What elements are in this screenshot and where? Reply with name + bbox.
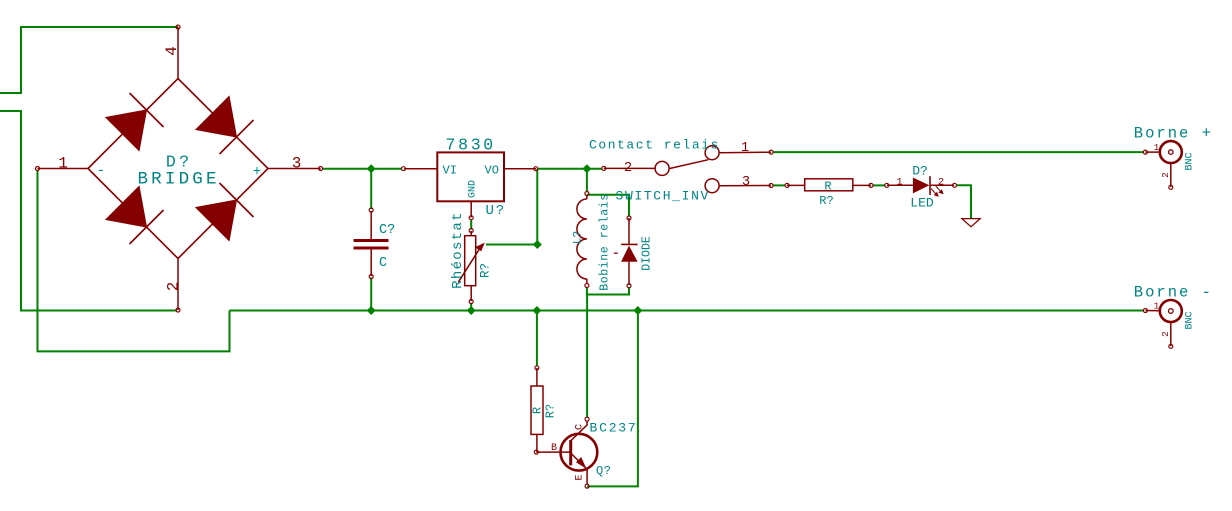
capacitor pin bottom — [370, 250, 372, 277]
wire resistor R to LED — [873, 184, 886, 186]
switch pin 3 — [719, 185, 771, 187]
LED cathode bar — [929, 176, 931, 195]
svg-text:R?: R? — [819, 194, 833, 208]
rheostat wiper arrow — [458, 247, 481, 283]
junction base-resistor/rail — [532, 306, 541, 315]
svg-text:C?: C? — [379, 223, 395, 238]
svg-text:-: - — [97, 163, 105, 179]
diode D?c bottom-left — [106, 186, 164, 244]
rheostat pin bottom — [470, 286, 472, 301]
wire switch pin1 to Borne + — [773, 151, 1145, 153]
FREEWHEEL DIODE — [614, 216, 654, 288]
junction wiper node — [533, 240, 542, 249]
coil pin top — [586, 195, 588, 199]
BNC outer circle — [1160, 300, 1182, 322]
pin VI — [404, 168, 437, 170]
switch pin 1 — [719, 151, 771, 154]
svg-text:GND: GND — [468, 180, 479, 198]
svg-text:B: B — [551, 443, 557, 454]
BRIDGE RECTIFIER D? — [36, 25, 323, 312]
U1 body — [437, 152, 504, 201]
diode pin top — [628, 218, 630, 244]
junction bridge/cap node — [367, 164, 376, 173]
BASE RESISTOR R? (vertical) — [531, 366, 558, 452]
wire capacitor bottom — [370, 278, 372, 311]
svg-text:R?: R? — [544, 404, 558, 418]
wire coil top to diode top — [587, 195, 629, 217]
wire DC minus from bridge pin 1 — [38, 170, 230, 351]
wire diode bottom — [587, 287, 629, 295]
wire emitter to rail — [587, 311, 638, 487]
svg-text:E: E — [575, 474, 586, 480]
resistor body — [531, 386, 543, 434]
svg-text:1: 1 — [741, 141, 749, 156]
resistor pin bottom — [536, 434, 538, 452]
wire rail to base resistor — [536, 311, 538, 367]
bridge diamond outline — [88, 79, 268, 259]
svg-text:Q?: Q? — [596, 464, 611, 478]
resistor body — [805, 179, 853, 191]
svg-text:Bobine relais: Bobine relais — [599, 193, 612, 291]
CAPACITOR C? — [354, 208, 396, 279]
svg-text:SWITCH_INV: SWITCH_INV — [616, 189, 711, 204]
svg-text:3: 3 — [742, 175, 750, 190]
capacitor pin top — [370, 211, 372, 239]
BNC inner circle — [1169, 309, 1174, 314]
diode triangle — [621, 246, 638, 262]
wire coil bottom to collector — [586, 287, 588, 418]
wire VO down to wiper — [536, 169, 538, 245]
BNC outer circle — [1160, 141, 1182, 163]
pin GND — [470, 201, 472, 217]
svg-text:VI: VI — [443, 164, 457, 178]
base pin — [536, 451, 570, 453]
rheostat pin top — [470, 231, 472, 236]
wire switch pin3 to resistor R — [773, 184, 786, 186]
junction VO/switch/coil node — [582, 164, 591, 173]
svg-text:R: R — [531, 407, 545, 414]
svg-text:C: C — [575, 424, 586, 430]
bridge pin 3 — [268, 168, 321, 170]
diode pin bottom — [628, 262, 630, 285]
svg-text:C: C — [379, 256, 387, 271]
svg-text:1: 1 — [896, 177, 902, 189]
JUNCTIONS — [367, 164, 643, 315]
diode minus mark — [614, 252, 618, 254]
GROUND SYMBOL — [962, 219, 980, 227]
wire AC top: left edge to bridge pin 4 — [0, 27, 178, 93]
capacitor plate bottom — [354, 247, 389, 250]
svg-text:R?: R? — [479, 263, 493, 278]
SWITCH Contact relais — [589, 138, 773, 204]
REGULATOR U? 7830 — [402, 136, 538, 220]
svg-text:2: 2 — [165, 282, 183, 292]
RELAY COIL L? — [573, 192, 612, 291]
pin VO — [504, 168, 536, 170]
svg-text:2: 2 — [1160, 172, 1171, 178]
junction emitter-return/rail — [633, 306, 642, 315]
bridge pin 1 — [38, 168, 89, 170]
svg-text:Borne -: Borne - — [1134, 284, 1213, 302]
switch pin 2 — [604, 167, 655, 169]
coil arcs — [577, 199, 587, 279]
svg-text:7830: 7830 — [445, 136, 495, 155]
LED light arrows — [931, 186, 943, 196]
wire LED to ground — [956, 185, 971, 218]
svg-text:2: 2 — [1160, 331, 1171, 337]
svg-text:Rhéostat: Rhéostat — [450, 211, 466, 289]
diode cathode bar — [621, 243, 637, 245]
BNC inner circle — [1169, 150, 1174, 155]
svg-text:3: 3 — [292, 155, 302, 173]
diode D?a top-left — [106, 93, 164, 151]
bridge pin 4 — [177, 27, 179, 79]
bridge pin 2 — [177, 259, 179, 311]
BNC pin 1 — [1145, 151, 1159, 153]
RHEOSTAT R? — [450, 211, 493, 303]
svg-text:1: 1 — [58, 155, 68, 173]
svg-text:Contact relais: Contact relais — [589, 138, 720, 153]
svg-text:R: R — [824, 180, 831, 194]
resistor pin top — [536, 368, 538, 386]
RESISTOR R (series with LED) — [785, 179, 873, 208]
switch common circle pin 2 — [655, 161, 669, 175]
switch contact circle pin 3 — [705, 179, 719, 193]
svg-text:+: + — [253, 164, 261, 180]
resistor pin right — [853, 184, 871, 186]
svg-text:VO: VO — [485, 164, 499, 178]
wire bridge pin3 to VI — [322, 168, 402, 170]
LED D? — [885, 164, 957, 211]
wire junction to coil top — [586, 169, 588, 192]
svg-text:2: 2 — [938, 177, 944, 189]
svg-text:BNC: BNC — [1185, 152, 1196, 170]
resistor pin left — [787, 184, 805, 186]
BNC pin 1 — [1145, 310, 1159, 312]
svg-text:Borne +: Borne + — [1134, 125, 1213, 143]
junction rheostat/rail — [467, 306, 476, 315]
svg-text:2: 2 — [624, 161, 632, 176]
switch contact circle pin 1 — [705, 146, 719, 160]
LED pin 1 — [887, 184, 913, 186]
wire VO to switch — [537, 168, 602, 170]
svg-text:L?: L? — [573, 231, 585, 244]
BNC Borne + — [1134, 125, 1213, 190]
svg-text:D?: D? — [912, 164, 928, 179]
svg-text:1: 1 — [1154, 301, 1160, 312]
coil pin bottom — [586, 279, 588, 284]
svg-text:BNC: BNC — [1185, 311, 1196, 329]
collector — [571, 421, 587, 441]
rheostat body — [465, 236, 476, 286]
base bar — [569, 440, 572, 465]
LED pin 2 — [930, 184, 954, 186]
wire rheostat bottom to rail — [470, 303, 472, 311]
diode D?d bottom-right — [196, 183, 254, 241]
BNC pin 2 — [1170, 163, 1172, 187]
TRANSISTOR Q? BC237 — [534, 417, 637, 488]
LED triangle — [913, 178, 929, 194]
junction cap/rail — [367, 306, 376, 315]
svg-text:U?: U? — [486, 203, 506, 219]
diode D?b top-right — [196, 96, 254, 154]
svg-text:BC237: BC237 — [590, 421, 638, 436]
svg-text:1: 1 — [1154, 142, 1160, 153]
svg-text:BRIDGE: BRIDGE — [137, 170, 219, 190]
capacitor plate top — [354, 239, 389, 242]
svg-text:LED: LED — [910, 196, 934, 211]
wire ground rail — [230, 310, 1145, 312]
svg-text:DIODE: DIODE — [641, 236, 654, 271]
wire wiper to vertical — [486, 244, 537, 246]
svg-text:4: 4 — [163, 46, 181, 56]
transistor body circle — [561, 434, 598, 471]
wire AC bottom: left edge to bridge pin 2 — [0, 111, 177, 311]
wire GND pin to rheostat — [470, 220, 472, 230]
emitter with arrow — [571, 453, 587, 484]
switch lever — [669, 160, 708, 169]
BNC Borne - — [1134, 284, 1213, 349]
BNC pin 2 — [1170, 322, 1172, 346]
wire capacitor top — [370, 169, 372, 209]
ground — [962, 219, 980, 227]
